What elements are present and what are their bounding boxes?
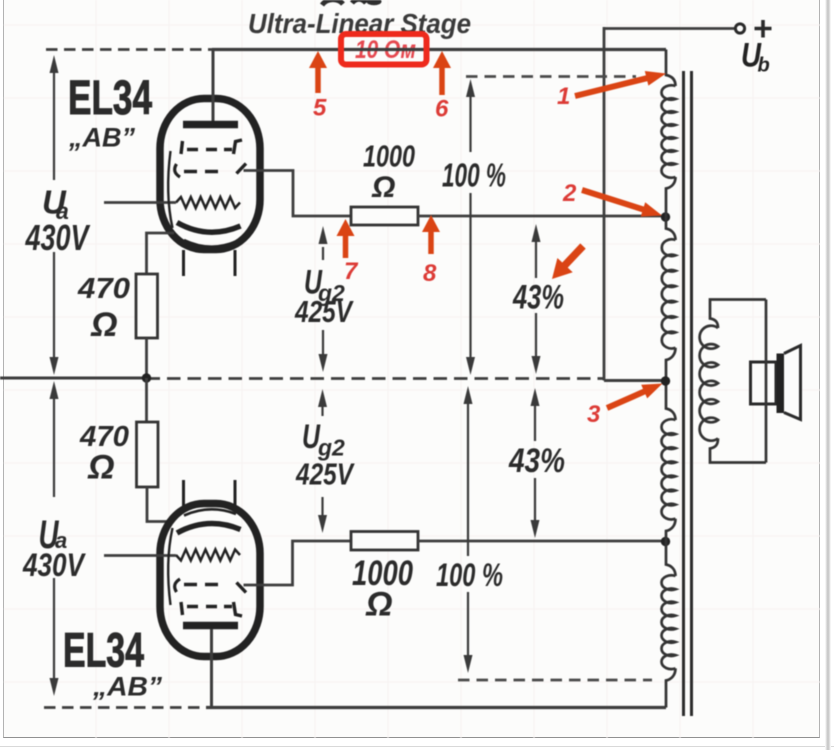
svg-text:5: 5 xyxy=(313,95,327,122)
svg-text:„AB”: „AB” xyxy=(68,123,135,153)
svg-text:b: b xyxy=(758,55,770,77)
svg-text:Ω: Ω xyxy=(87,449,115,487)
svg-text:8: 8 xyxy=(423,260,437,287)
svg-text:43%: 43% xyxy=(512,279,564,317)
svg-text:7: 7 xyxy=(344,258,359,285)
svg-text:430V: 430V xyxy=(25,217,91,258)
svg-text:430V: 430V xyxy=(22,547,86,583)
svg-text:EL34: EL34 xyxy=(68,72,152,125)
svg-text:Ω: Ω xyxy=(371,171,395,204)
svg-text:3: 3 xyxy=(587,401,601,428)
svg-text:Ω: Ω xyxy=(365,586,393,624)
svg-text:100 %: 100 % xyxy=(436,557,503,593)
svg-text:EL34: EL34 xyxy=(63,624,144,678)
svg-text:1: 1 xyxy=(557,83,570,110)
svg-text:1000: 1000 xyxy=(363,139,415,174)
svg-text:Ω: Ω xyxy=(90,306,118,344)
svg-text:43%: 43% xyxy=(508,442,565,480)
svg-text:2: 2 xyxy=(562,180,577,207)
svg-text:425V: 425V xyxy=(295,457,355,492)
svg-text:100 %: 100 % xyxy=(442,157,506,194)
svg-text:„AB”: „AB” xyxy=(92,672,163,702)
svg-text:470: 470 xyxy=(77,273,130,305)
svg-text:6: 6 xyxy=(435,96,449,123)
svg-text:425V: 425V xyxy=(294,294,354,329)
